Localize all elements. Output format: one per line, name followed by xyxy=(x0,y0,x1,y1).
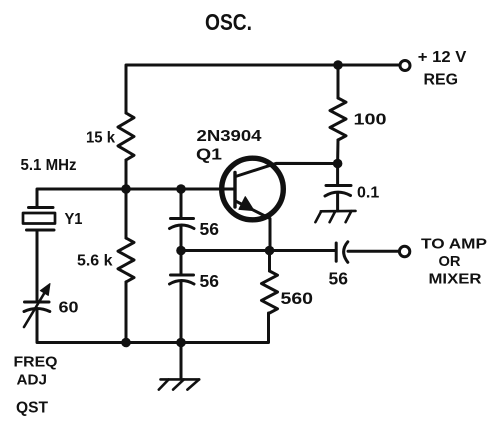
svg-text:56: 56 xyxy=(200,219,220,239)
wire base rail to C2 top xyxy=(180,189,183,219)
svg-text:ADJ: ADJ xyxy=(17,372,48,389)
capacitor C4 0.1 xyxy=(325,186,351,197)
resistor R4 560 xyxy=(262,271,278,313)
wire crystal to variable capacitor xyxy=(36,230,39,302)
resistor R3 100 xyxy=(330,98,346,140)
svg-text:5.6 k: 5.6 k xyxy=(77,253,113,270)
terminal output to amp or mixer xyxy=(399,246,409,256)
svg-text:15 k: 15 k xyxy=(86,130,115,147)
wire 5.6k bottom to bottom rail xyxy=(125,282,128,343)
capacitor C2 56 xyxy=(170,219,195,229)
wire C2 bottom to emitter rail xyxy=(180,226,183,251)
wire 15k bottom to base rail xyxy=(125,160,128,189)
svg-text:FREQ: FREQ xyxy=(14,354,58,371)
ground (under 0.1 cap) xyxy=(315,211,355,222)
wire emitter rail to C3 top xyxy=(180,251,183,276)
svg-text:OR: OR xyxy=(439,253,461,270)
wire base rail to 5.6k top xyxy=(125,189,128,238)
node collector / 0.1 junction xyxy=(333,159,343,169)
wire top rail to 100 xyxy=(337,65,340,98)
svg-text:QST: QST xyxy=(16,400,49,417)
node emitter / 560 junction xyxy=(265,246,275,256)
svg-text:56: 56 xyxy=(200,271,220,291)
svg-text:TO AMP: TO AMP xyxy=(421,235,487,252)
resistor R2 5.6 k xyxy=(118,238,134,282)
resistor R1 15 k xyxy=(118,113,134,160)
svg-text:OSC.: OSC. xyxy=(205,9,252,35)
wire 100 bottom to collector node xyxy=(336,140,339,164)
wire output coupling cap to terminal xyxy=(348,250,399,253)
svg-text:MIXER: MIXER xyxy=(429,271,482,288)
node bottom rail / ground junction xyxy=(176,338,186,348)
node top rail / 100 junction xyxy=(333,60,343,70)
svg-text:2N3904: 2N3904 xyxy=(197,128,262,145)
wire emitter rail xyxy=(181,249,336,252)
svg-text:REG: REG xyxy=(424,72,459,89)
svg-text:100: 100 xyxy=(354,112,387,129)
wire bottom rail (ground rail) xyxy=(37,311,269,343)
svg-text:5.1 MHz: 5.1 MHz xyxy=(21,157,77,174)
svg-text:Q1: Q1 xyxy=(196,147,222,164)
svg-text:60: 60 xyxy=(59,300,79,317)
svg-text:56: 56 xyxy=(329,269,349,289)
capacitor C3 56 xyxy=(170,275,195,284)
node bottom rail / 5.6k junction xyxy=(121,338,131,348)
wire 0.1 cap to ground xyxy=(336,194,339,212)
transistor Q1 2N3904 xyxy=(222,158,338,250)
terminal +12V REG xyxy=(400,61,410,71)
ground (bottom rail bypass) xyxy=(159,379,199,389)
node emitter rail / C2-C3 junction xyxy=(176,246,186,256)
svg-text:0.1: 0.1 xyxy=(357,185,379,202)
wire bottom rail to ground xyxy=(180,343,183,379)
node base rail / 15k-5.6k junction xyxy=(121,184,131,194)
variable capacitor C1 60 xyxy=(24,284,50,328)
wire top rail (+12V supply rail) xyxy=(126,65,400,113)
wire collector node to 0.1 cap xyxy=(336,164,339,186)
svg-text:560: 560 xyxy=(281,289,314,308)
svg-text:+ 12 V: + 12 V xyxy=(418,49,467,66)
crystal Y1 xyxy=(23,208,55,231)
wire base rail (base node to crystal branch) xyxy=(37,189,235,208)
svg-text:Y1: Y1 xyxy=(65,211,83,228)
capacitor C5 56 output coupling xyxy=(336,242,348,262)
node base rail / C2 junction xyxy=(176,184,186,194)
wire emitter node to 560 xyxy=(268,251,271,272)
wire C3 bottom to bottom rail xyxy=(180,282,183,343)
